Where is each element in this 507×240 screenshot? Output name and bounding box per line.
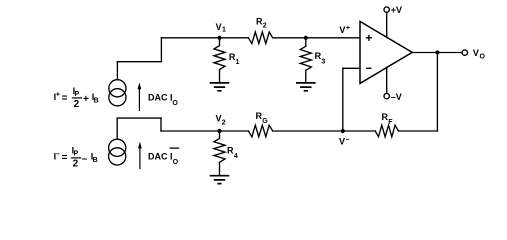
wire op-amp output bbox=[412, 52, 462, 54]
op-amp minus marker bbox=[366, 67, 371, 69]
wire top row right of R2 bbox=[273, 37, 360, 39]
fraction bar eq2 bbox=[71, 157, 81, 159]
svg-text:P: P bbox=[75, 91, 80, 98]
svg-text:2: 2 bbox=[222, 119, 226, 126]
node V1 bbox=[217, 36, 221, 40]
current source DAC IO circle top bbox=[109, 80, 126, 97]
ground R3 bbox=[296, 83, 316, 91]
current source DAC IObar circle top bbox=[109, 139, 126, 156]
svg-text:B: B bbox=[94, 98, 99, 105]
wire top row left of R2 bbox=[161, 37, 248, 39]
terminal +V bbox=[384, 7, 389, 12]
svg-text:1: 1 bbox=[236, 59, 240, 66]
terminal -V bbox=[384, 93, 389, 98]
svg-text:3: 3 bbox=[321, 59, 325, 66]
wire top staircase horizontal bbox=[117, 61, 161, 63]
svg-text:G: G bbox=[262, 118, 268, 125]
node V- junction bbox=[341, 129, 345, 133]
svg-text:2: 2 bbox=[263, 23, 267, 30]
current source DAC IO circle bottom bbox=[109, 89, 126, 106]
svg-text:B: B bbox=[93, 157, 98, 164]
resistor RF bbox=[375, 125, 398, 137]
resistor R3 bbox=[300, 38, 311, 83]
wire bottom row right of RF bbox=[398, 130, 437, 132]
svg-text:P: P bbox=[74, 150, 79, 157]
svg-text:+: + bbox=[346, 25, 350, 32]
svg-text:=: = bbox=[62, 153, 68, 164]
fraction bar eq1 bbox=[72, 97, 82, 99]
svg-text:+: + bbox=[56, 91, 60, 98]
wire +V supply bbox=[386, 12, 388, 37]
terminal Vo bbox=[462, 50, 467, 55]
current source DAC IObar circle bottom bbox=[109, 148, 126, 165]
arrow DAC IObar shaft bbox=[139, 148, 141, 169]
resistor R1 bbox=[214, 38, 225, 83]
svg-text:=: = bbox=[62, 93, 68, 104]
wire bottom row middle bbox=[273, 130, 376, 132]
wire top staircase vertical bbox=[160, 38, 162, 62]
svg-text:V: V bbox=[216, 113, 222, 123]
node V+ junction bbox=[304, 36, 308, 40]
svg-text:V: V bbox=[216, 22, 222, 32]
resistor R2 bbox=[248, 32, 272, 44]
ground R4 bbox=[210, 176, 230, 184]
svg-text:4: 4 bbox=[234, 153, 238, 160]
svg-text:1: 1 bbox=[222, 26, 226, 33]
wire bottom staircase vertical right bbox=[160, 118, 162, 131]
svg-text:2: 2 bbox=[73, 158, 79, 169]
svg-text:O: O bbox=[480, 54, 486, 61]
svg-text:–: – bbox=[56, 151, 60, 158]
svg-text:V: V bbox=[473, 48, 479, 58]
svg-text:V: V bbox=[339, 25, 345, 35]
svg-text:–: – bbox=[346, 137, 350, 144]
svg-text:2: 2 bbox=[74, 99, 80, 110]
op-amp plus marker bbox=[366, 35, 372, 41]
svg-text:+: + bbox=[83, 94, 89, 105]
wire bottom row left of RG bbox=[161, 130, 248, 132]
arrow DAC IObar head bbox=[138, 142, 142, 149]
overline on DAC IObar bbox=[170, 147, 180, 149]
arrow DAC IO head bbox=[138, 83, 142, 90]
wire -V supply bbox=[386, 68, 388, 94]
svg-text:+V: +V bbox=[391, 5, 402, 15]
ground R1 bbox=[210, 83, 230, 91]
wire feedback vertical right bbox=[436, 53, 438, 132]
resistor R4 bbox=[214, 131, 225, 175]
arrow DAC IO shaft bbox=[138, 89, 140, 111]
node V2 bbox=[217, 129, 221, 133]
wire feedback to inverting input horizontal bbox=[343, 67, 360, 69]
wire feedback to inverting input vertical bbox=[342, 68, 344, 131]
svg-text:–V: –V bbox=[391, 92, 402, 102]
node output junction bbox=[435, 50, 439, 54]
resistor RG bbox=[248, 125, 272, 137]
svg-text:–: – bbox=[82, 153, 88, 164]
svg-text:F: F bbox=[388, 119, 393, 126]
svg-text:O: O bbox=[173, 159, 179, 166]
svg-text:DAC I: DAC I bbox=[148, 152, 173, 162]
op-amp U1 bbox=[360, 21, 412, 83]
svg-text:O: O bbox=[172, 100, 178, 107]
wire bottom staircase horizontal bbox=[117, 117, 161, 119]
wire CS2 top lead bbox=[116, 118, 118, 139]
svg-text:DAC I: DAC I bbox=[148, 93, 173, 103]
svg-text:V: V bbox=[339, 136, 345, 146]
wire CS1 top lead bbox=[116, 62, 118, 80]
